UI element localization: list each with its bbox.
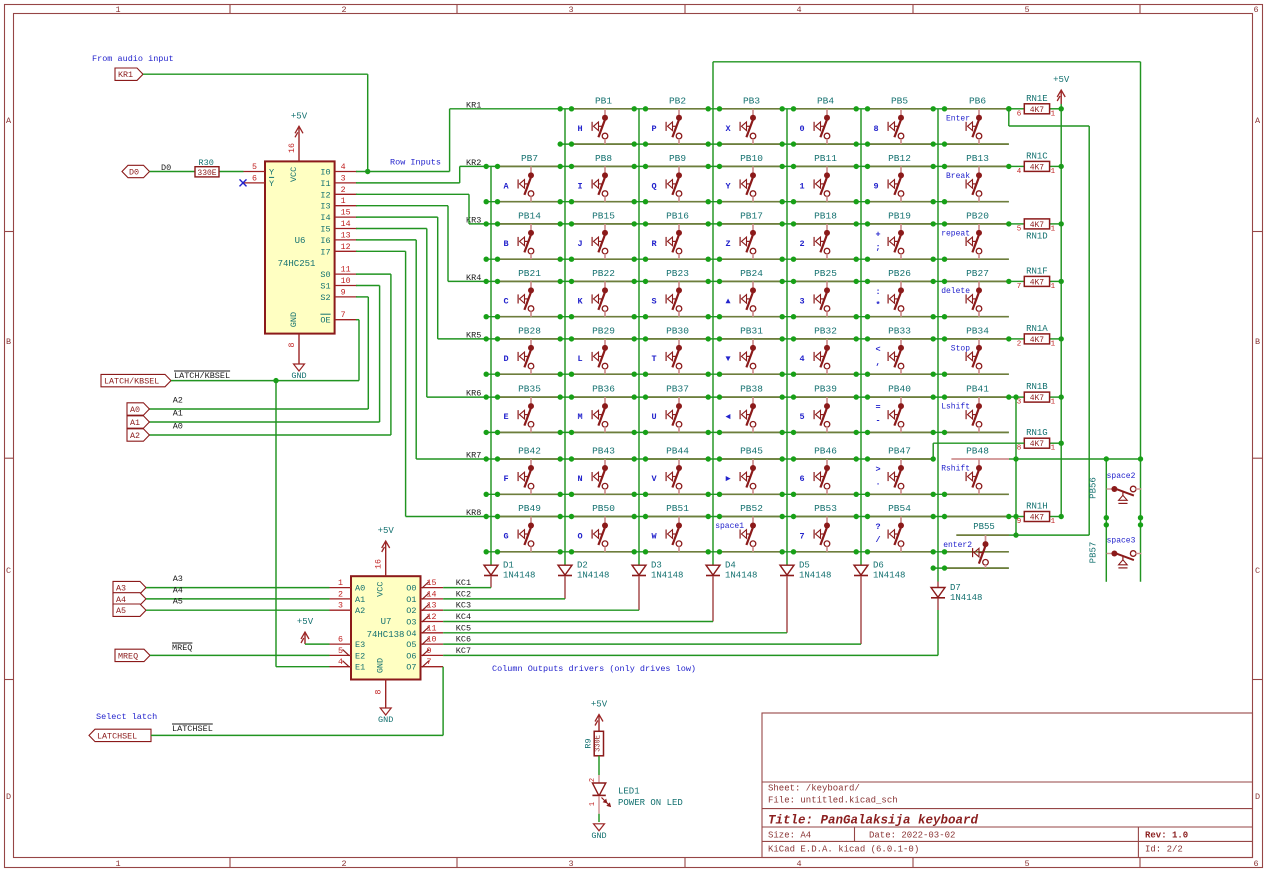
svg-text:I3: I3 [320, 202, 330, 212]
svg-text:3: 3 [799, 296, 804, 306]
svg-text:4: 4 [1017, 168, 1022, 176]
svg-text:VCC: VCC [289, 167, 299, 182]
svg-text:Stop: Stop [951, 344, 970, 353]
svg-text:-: - [875, 416, 880, 426]
svg-text:B: B [6, 337, 11, 347]
svg-text:PB6: PB6 [969, 95, 986, 106]
svg-text:T: T [651, 354, 656, 364]
svg-text:1: 1 [1051, 445, 1056, 453]
svg-text:PB22: PB22 [592, 268, 615, 279]
svg-text:PB34: PB34 [966, 325, 989, 336]
svg-text:delete: delete [941, 287, 970, 296]
svg-text:KR8: KR8 [466, 508, 481, 518]
svg-text:D1: D1 [503, 561, 514, 571]
svg-text:PB50: PB50 [592, 503, 615, 514]
svg-text:RN1C: RN1C [1026, 151, 1048, 161]
svg-text:V: V [651, 474, 657, 484]
svg-text:4K7: 4K7 [1030, 394, 1045, 403]
svg-text:KR1: KR1 [118, 70, 133, 80]
svg-text:PB25: PB25 [814, 268, 837, 279]
svg-text:PB51: PB51 [666, 503, 689, 514]
svg-text:A: A [1255, 116, 1261, 126]
svg-text:8: 8 [288, 342, 297, 347]
svg-text:1N4148: 1N4148 [873, 571, 905, 581]
svg-text:A5: A5 [173, 597, 183, 607]
svg-text:3: 3 [338, 602, 343, 611]
svg-text:K: K [577, 296, 583, 306]
svg-text:O1: O1 [406, 595, 416, 605]
svg-text:PB24: PB24 [740, 268, 763, 279]
svg-text:13: 13 [341, 231, 351, 240]
svg-text:14: 14 [341, 220, 351, 229]
svg-text:S2: S2 [320, 293, 330, 303]
svg-text:A0: A0 [173, 422, 183, 432]
svg-text:KC3: KC3 [456, 601, 471, 611]
svg-text:Select latch: Select latch [96, 712, 157, 722]
svg-text:O2: O2 [406, 606, 416, 616]
svg-text:<: < [875, 344, 880, 354]
svg-text:A3: A3 [116, 584, 126, 594]
svg-text:PB54: PB54 [888, 503, 911, 514]
svg-text:+: + [875, 229, 880, 239]
svg-text:330E: 330E [197, 169, 216, 178]
svg-text:A1: A1 [130, 418, 140, 428]
svg-text:POWER ON LED: POWER ON LED [618, 798, 683, 808]
svg-text:Column Outputs drivers (only d: Column Outputs drivers (only drives low) [492, 664, 696, 674]
svg-text:16: 16 [375, 559, 384, 569]
svg-text:5: 5 [799, 412, 804, 422]
svg-text:4K7: 4K7 [1030, 440, 1045, 449]
svg-text:PB33: PB33 [888, 325, 911, 336]
svg-text:W: W [651, 532, 657, 542]
svg-text:A5: A5 [116, 606, 126, 616]
svg-text:RN1D: RN1D [1026, 231, 1048, 241]
svg-text:M: M [577, 412, 582, 422]
svg-text:Enter: Enter [946, 114, 970, 123]
svg-text:11: 11 [427, 624, 437, 633]
svg-text:;: ; [875, 242, 880, 252]
svg-text:1: 1 [341, 197, 346, 206]
svg-text:O7: O7 [406, 663, 416, 673]
svg-text:PB35: PB35 [518, 384, 541, 395]
svg-text:PB31: PB31 [740, 325, 763, 336]
svg-text:GND: GND [291, 371, 306, 381]
svg-text:Y: Y [725, 181, 731, 191]
svg-text:3: 3 [1017, 399, 1022, 407]
svg-text:1N4148: 1N4148 [725, 571, 757, 581]
svg-text:4: 4 [799, 354, 804, 364]
svg-text:12: 12 [427, 613, 437, 622]
svg-text:7: 7 [799, 532, 804, 542]
svg-text:PB44: PB44 [666, 446, 689, 457]
svg-text:PB40: PB40 [888, 384, 911, 395]
svg-text:3: 3 [568, 859, 573, 869]
svg-text:Y: Y [269, 179, 274, 189]
svg-text:O4: O4 [406, 629, 416, 639]
svg-text:PB57: PB57 [1089, 542, 1099, 564]
svg-text:KC4: KC4 [456, 612, 471, 622]
svg-text:D4: D4 [725, 561, 736, 571]
svg-text:A1: A1 [173, 409, 183, 419]
svg-text:PB27: PB27 [966, 268, 989, 279]
svg-text:I: I [577, 181, 582, 191]
svg-text:O5: O5 [406, 640, 416, 650]
svg-text:+5V: +5V [378, 526, 395, 536]
svg-text:9: 9 [873, 181, 878, 191]
svg-text:A4: A4 [116, 595, 126, 605]
svg-text:LATCHSEL: LATCHSEL [97, 731, 137, 741]
svg-text:11: 11 [341, 266, 351, 275]
svg-text:=: = [875, 403, 880, 413]
svg-text:330E: 330E [594, 735, 602, 752]
svg-text:6: 6 [1253, 859, 1258, 869]
svg-text:PB53: PB53 [814, 503, 837, 514]
svg-text:6: 6 [799, 474, 804, 484]
svg-text:4: 4 [796, 5, 801, 15]
svg-text:,: , [875, 357, 880, 367]
svg-text:U6: U6 [295, 236, 306, 246]
svg-text:KR4: KR4 [466, 273, 481, 283]
svg-text:/: / [875, 535, 880, 545]
svg-text:PB7: PB7 [521, 153, 538, 164]
svg-text:R: R [651, 239, 657, 249]
svg-text:Y: Y [269, 168, 274, 178]
svg-text:PB48: PB48 [966, 446, 989, 457]
svg-text:2: 2 [589, 778, 597, 782]
svg-text:PB8: PB8 [595, 153, 612, 164]
svg-text:0: 0 [799, 124, 804, 134]
svg-text:U: U [651, 412, 656, 422]
svg-text:D7: D7 [950, 583, 961, 593]
svg-text:1: 1 [1051, 110, 1056, 118]
svg-text:D5: D5 [799, 561, 810, 571]
svg-text:RN1G: RN1G [1026, 428, 1048, 438]
svg-text:5: 5 [1024, 859, 1029, 869]
svg-text:KC7: KC7 [456, 646, 471, 656]
svg-text:1N4148: 1N4148 [577, 571, 609, 581]
svg-text:Z: Z [725, 239, 730, 249]
svg-text:PB17: PB17 [740, 210, 763, 221]
svg-text:◄: ◄ [725, 412, 730, 422]
svg-text:space3: space3 [1107, 537, 1136, 546]
svg-text:12: 12 [341, 243, 351, 252]
svg-text:PB4: PB4 [817, 95, 834, 106]
svg-text:1N4148: 1N4148 [503, 571, 535, 581]
svg-text:repeat: repeat [941, 229, 970, 238]
svg-text:PB12: PB12 [888, 153, 911, 164]
svg-text:PB29: PB29 [592, 325, 615, 336]
svg-text:KR7: KR7 [466, 451, 481, 461]
svg-text:1: 1 [1051, 340, 1056, 348]
svg-text:74HC138: 74HC138 [367, 630, 405, 640]
svg-text:Rshift: Rshift [941, 465, 970, 474]
svg-text:+5V: +5V [291, 111, 308, 121]
svg-text:1: 1 [799, 181, 804, 191]
svg-text:D: D [503, 354, 508, 364]
svg-text:LATCH/KBSEL: LATCH/KBSEL [104, 377, 159, 387]
svg-text:Rev: 1.0: Rev: 1.0 [1145, 831, 1188, 841]
svg-text:I4: I4 [320, 213, 330, 223]
svg-text:E1: E1 [355, 663, 365, 673]
svg-text:+5V: +5V [297, 617, 314, 627]
svg-text:2: 2 [341, 186, 346, 195]
svg-text:PB56: PB56 [1089, 477, 1099, 499]
svg-text::: : [875, 287, 880, 297]
svg-text:1: 1 [1051, 168, 1056, 176]
svg-text:PB26: PB26 [888, 268, 911, 279]
svg-text:RN1B: RN1B [1026, 382, 1048, 392]
svg-text:Lshift: Lshift [941, 403, 970, 412]
svg-text:I6: I6 [320, 236, 330, 246]
svg-text:I5: I5 [320, 225, 330, 235]
svg-text:A: A [503, 181, 509, 191]
svg-text:16: 16 [288, 143, 297, 153]
svg-text:KC1: KC1 [456, 578, 471, 588]
svg-text:I1: I1 [320, 179, 330, 189]
svg-text:C: C [503, 296, 508, 306]
svg-text:C: C [1255, 566, 1260, 576]
svg-text:PB2: PB2 [669, 95, 686, 106]
svg-text:1: 1 [1051, 399, 1056, 407]
svg-text:R9: R9 [584, 738, 594, 748]
svg-text:PB30: PB30 [666, 325, 689, 336]
svg-text:4K7: 4K7 [1030, 106, 1045, 115]
svg-text:space2: space2 [1107, 472, 1136, 481]
svg-text:Size: A4: Size: A4 [768, 831, 811, 841]
svg-text:1N4148: 1N4148 [799, 571, 831, 581]
svg-text:1: 1 [338, 579, 343, 588]
svg-text:A2: A2 [173, 396, 183, 406]
svg-text:PB21: PB21 [518, 268, 541, 279]
svg-text:1: 1 [1051, 283, 1056, 291]
svg-text:.: . [875, 478, 880, 488]
svg-text:?: ? [875, 522, 880, 532]
svg-text:Row Inputs: Row Inputs [390, 158, 441, 168]
svg-text:15: 15 [341, 209, 351, 218]
svg-text:Date: 2022-03-02: Date: 2022-03-02 [869, 831, 955, 841]
svg-text:9: 9 [341, 288, 346, 297]
svg-text:PB20: PB20 [966, 210, 989, 221]
svg-text:74HC251: 74HC251 [278, 259, 316, 269]
svg-text:I0: I0 [320, 168, 330, 178]
svg-text:8: 8 [1017, 445, 1022, 453]
svg-text:RN1E: RN1E [1026, 94, 1048, 104]
svg-text:LED1: LED1 [618, 787, 640, 797]
svg-text:PB10: PB10 [740, 153, 763, 164]
svg-text:5: 5 [1024, 5, 1029, 15]
svg-text:D2: D2 [577, 561, 588, 571]
svg-text:File: untitled.kicad_sch: File: untitled.kicad_sch [768, 796, 898, 806]
svg-text:1: 1 [1051, 225, 1056, 233]
svg-text:PB46: PB46 [814, 446, 837, 457]
svg-text:15: 15 [427, 579, 437, 588]
svg-text:1: 1 [589, 802, 597, 806]
svg-text:6: 6 [338, 636, 343, 645]
svg-text:enter2: enter2 [943, 541, 972, 550]
svg-text:A0: A0 [355, 584, 365, 594]
svg-text:PB52: PB52 [740, 503, 763, 514]
svg-text:14: 14 [427, 590, 437, 599]
svg-text:PB41: PB41 [966, 384, 989, 395]
svg-text:H: H [577, 124, 582, 134]
svg-text:PB14: PB14 [518, 210, 541, 221]
svg-text:Sheet: /keyboard/: Sheet: /keyboard/ [768, 784, 860, 794]
svg-text:▼: ▼ [725, 354, 731, 364]
svg-text:GND: GND [376, 658, 386, 673]
svg-text:D: D [6, 792, 11, 802]
svg-text:B: B [503, 239, 508, 249]
svg-text:D: D [1255, 792, 1260, 802]
svg-text:4K7: 4K7 [1030, 278, 1045, 287]
svg-text:5: 5 [338, 647, 343, 656]
svg-text:PB38: PB38 [740, 384, 763, 395]
svg-text:1: 1 [1051, 518, 1056, 526]
svg-text:G: G [503, 532, 508, 542]
svg-text:S1: S1 [320, 282, 330, 292]
svg-text:Q: Q [651, 181, 656, 191]
svg-text:13: 13 [427, 602, 437, 611]
svg-text:2: 2 [338, 590, 343, 599]
svg-text:PB5: PB5 [891, 95, 908, 106]
svg-text:PB19: PB19 [888, 210, 911, 221]
svg-text:A1: A1 [355, 595, 365, 605]
svg-text:PB47: PB47 [888, 446, 911, 457]
svg-text:2: 2 [341, 5, 346, 15]
svg-text:10: 10 [427, 636, 437, 645]
svg-text:KR1: KR1 [466, 100, 481, 110]
svg-text:4: 4 [338, 658, 343, 667]
svg-text:U7: U7 [381, 617, 392, 627]
svg-text:MREQ: MREQ [118, 651, 138, 661]
svg-text:>: > [875, 465, 880, 475]
svg-text:L: L [577, 354, 582, 364]
svg-text:E2: E2 [355, 651, 365, 661]
svg-text:PB45: PB45 [740, 446, 763, 457]
svg-text:PB42: PB42 [518, 446, 541, 457]
svg-text:A4: A4 [173, 585, 183, 595]
svg-text:4K7: 4K7 [1030, 221, 1045, 230]
svg-text:3: 3 [568, 5, 573, 15]
svg-text:PB55: PB55 [973, 522, 995, 532]
svg-text:1N4148: 1N4148 [950, 593, 982, 603]
svg-text:A2: A2 [355, 606, 365, 616]
svg-text:►: ► [725, 474, 731, 484]
svg-text:O: O [577, 532, 582, 542]
svg-text:PB37: PB37 [666, 384, 689, 395]
svg-text:D3: D3 [651, 561, 662, 571]
svg-text:6: 6 [1017, 110, 1022, 118]
svg-text:6: 6 [1253, 5, 1258, 15]
svg-text:LATCH/KBSEL: LATCH/KBSEL [174, 371, 230, 381]
svg-text:space1: space1 [715, 522, 744, 531]
svg-text:4: 4 [341, 163, 346, 172]
svg-text:PB18: PB18 [814, 210, 837, 221]
svg-text:KR6: KR6 [466, 389, 481, 399]
svg-text:2: 2 [799, 239, 804, 249]
svg-text:5: 5 [1017, 225, 1022, 233]
svg-text:5: 5 [252, 163, 257, 172]
svg-text:4: 4 [796, 859, 801, 869]
svg-text:1N4148: 1N4148 [651, 571, 683, 581]
svg-text:PB9: PB9 [669, 153, 686, 164]
svg-text:VCC: VCC [376, 582, 386, 597]
svg-text:RN1H: RN1H [1026, 502, 1048, 512]
svg-text:Title: PanGalaksija keyboard: Title: PanGalaksija keyboard [768, 814, 979, 828]
svg-text:1: 1 [115, 859, 120, 869]
svg-text:KC5: KC5 [456, 623, 471, 633]
svg-text:E: E [503, 412, 508, 422]
svg-text:PB36: PB36 [592, 384, 615, 395]
svg-text:KC6: KC6 [456, 635, 471, 645]
svg-text:PB13: PB13 [966, 153, 989, 164]
svg-text:PB39: PB39 [814, 384, 837, 395]
svg-text:PB28: PB28 [518, 325, 541, 336]
svg-text:8: 8 [873, 124, 878, 134]
svg-text:From audio input: From audio input [92, 54, 174, 64]
svg-text:J: J [577, 239, 582, 249]
svg-text:F: F [503, 474, 508, 484]
svg-text:GND: GND [591, 831, 606, 841]
svg-text:B: B [1255, 337, 1260, 347]
svg-text:P: P [651, 124, 656, 134]
svg-text:*: * [875, 300, 880, 310]
svg-text:4K7: 4K7 [1030, 336, 1045, 345]
svg-text:7: 7 [341, 311, 346, 320]
svg-text:PB49: PB49 [518, 503, 541, 514]
svg-text:Id: 2/2: Id: 2/2 [1145, 845, 1183, 855]
svg-text:KiCad E.D.A. kicad (6.0.1-0): KiCad E.D.A. kicad (6.0.1-0) [768, 845, 919, 855]
svg-text:O3: O3 [406, 618, 416, 628]
svg-text:X: X [725, 124, 731, 134]
svg-text:PB23: PB23 [666, 268, 689, 279]
svg-text:9: 9 [1017, 518, 1022, 526]
svg-text:I7: I7 [320, 247, 330, 257]
svg-text:8: 8 [375, 689, 384, 694]
svg-text:LATCHSEL: LATCHSEL [172, 724, 213, 734]
svg-text:4K7: 4K7 [1030, 514, 1045, 523]
svg-text:O0: O0 [406, 584, 416, 594]
svg-text:PB3: PB3 [743, 95, 760, 106]
svg-text:A: A [6, 116, 12, 126]
svg-text:GND: GND [289, 312, 299, 327]
svg-text:RN1A: RN1A [1026, 324, 1048, 334]
svg-text:RN1F: RN1F [1026, 266, 1048, 276]
svg-text:D6: D6 [873, 561, 884, 571]
svg-text:+5V: +5V [591, 700, 608, 710]
svg-text:+5V: +5V [1053, 75, 1070, 85]
svg-text:3: 3 [341, 174, 346, 183]
svg-text:MREQ: MREQ [172, 643, 192, 653]
svg-text:R30: R30 [199, 158, 214, 168]
svg-text:A0: A0 [130, 405, 140, 415]
svg-text:PB16: PB16 [666, 210, 689, 221]
svg-text:A3: A3 [173, 574, 183, 584]
svg-text:N: N [577, 474, 582, 484]
svg-text:4K7: 4K7 [1030, 163, 1045, 172]
svg-text:PB1: PB1 [595, 95, 612, 106]
svg-text:PB15: PB15 [592, 210, 615, 221]
svg-text:7: 7 [1017, 283, 1022, 291]
svg-text:I2: I2 [320, 190, 330, 200]
svg-text:KC2: KC2 [456, 589, 471, 599]
svg-text:GND: GND [378, 715, 393, 725]
svg-text:1: 1 [115, 5, 120, 15]
svg-text:PB43: PB43 [592, 446, 615, 457]
svg-text:KR2: KR2 [466, 158, 481, 168]
svg-text:E3: E3 [355, 640, 365, 650]
svg-text:PB32: PB32 [814, 325, 837, 336]
svg-text:2: 2 [341, 859, 346, 869]
